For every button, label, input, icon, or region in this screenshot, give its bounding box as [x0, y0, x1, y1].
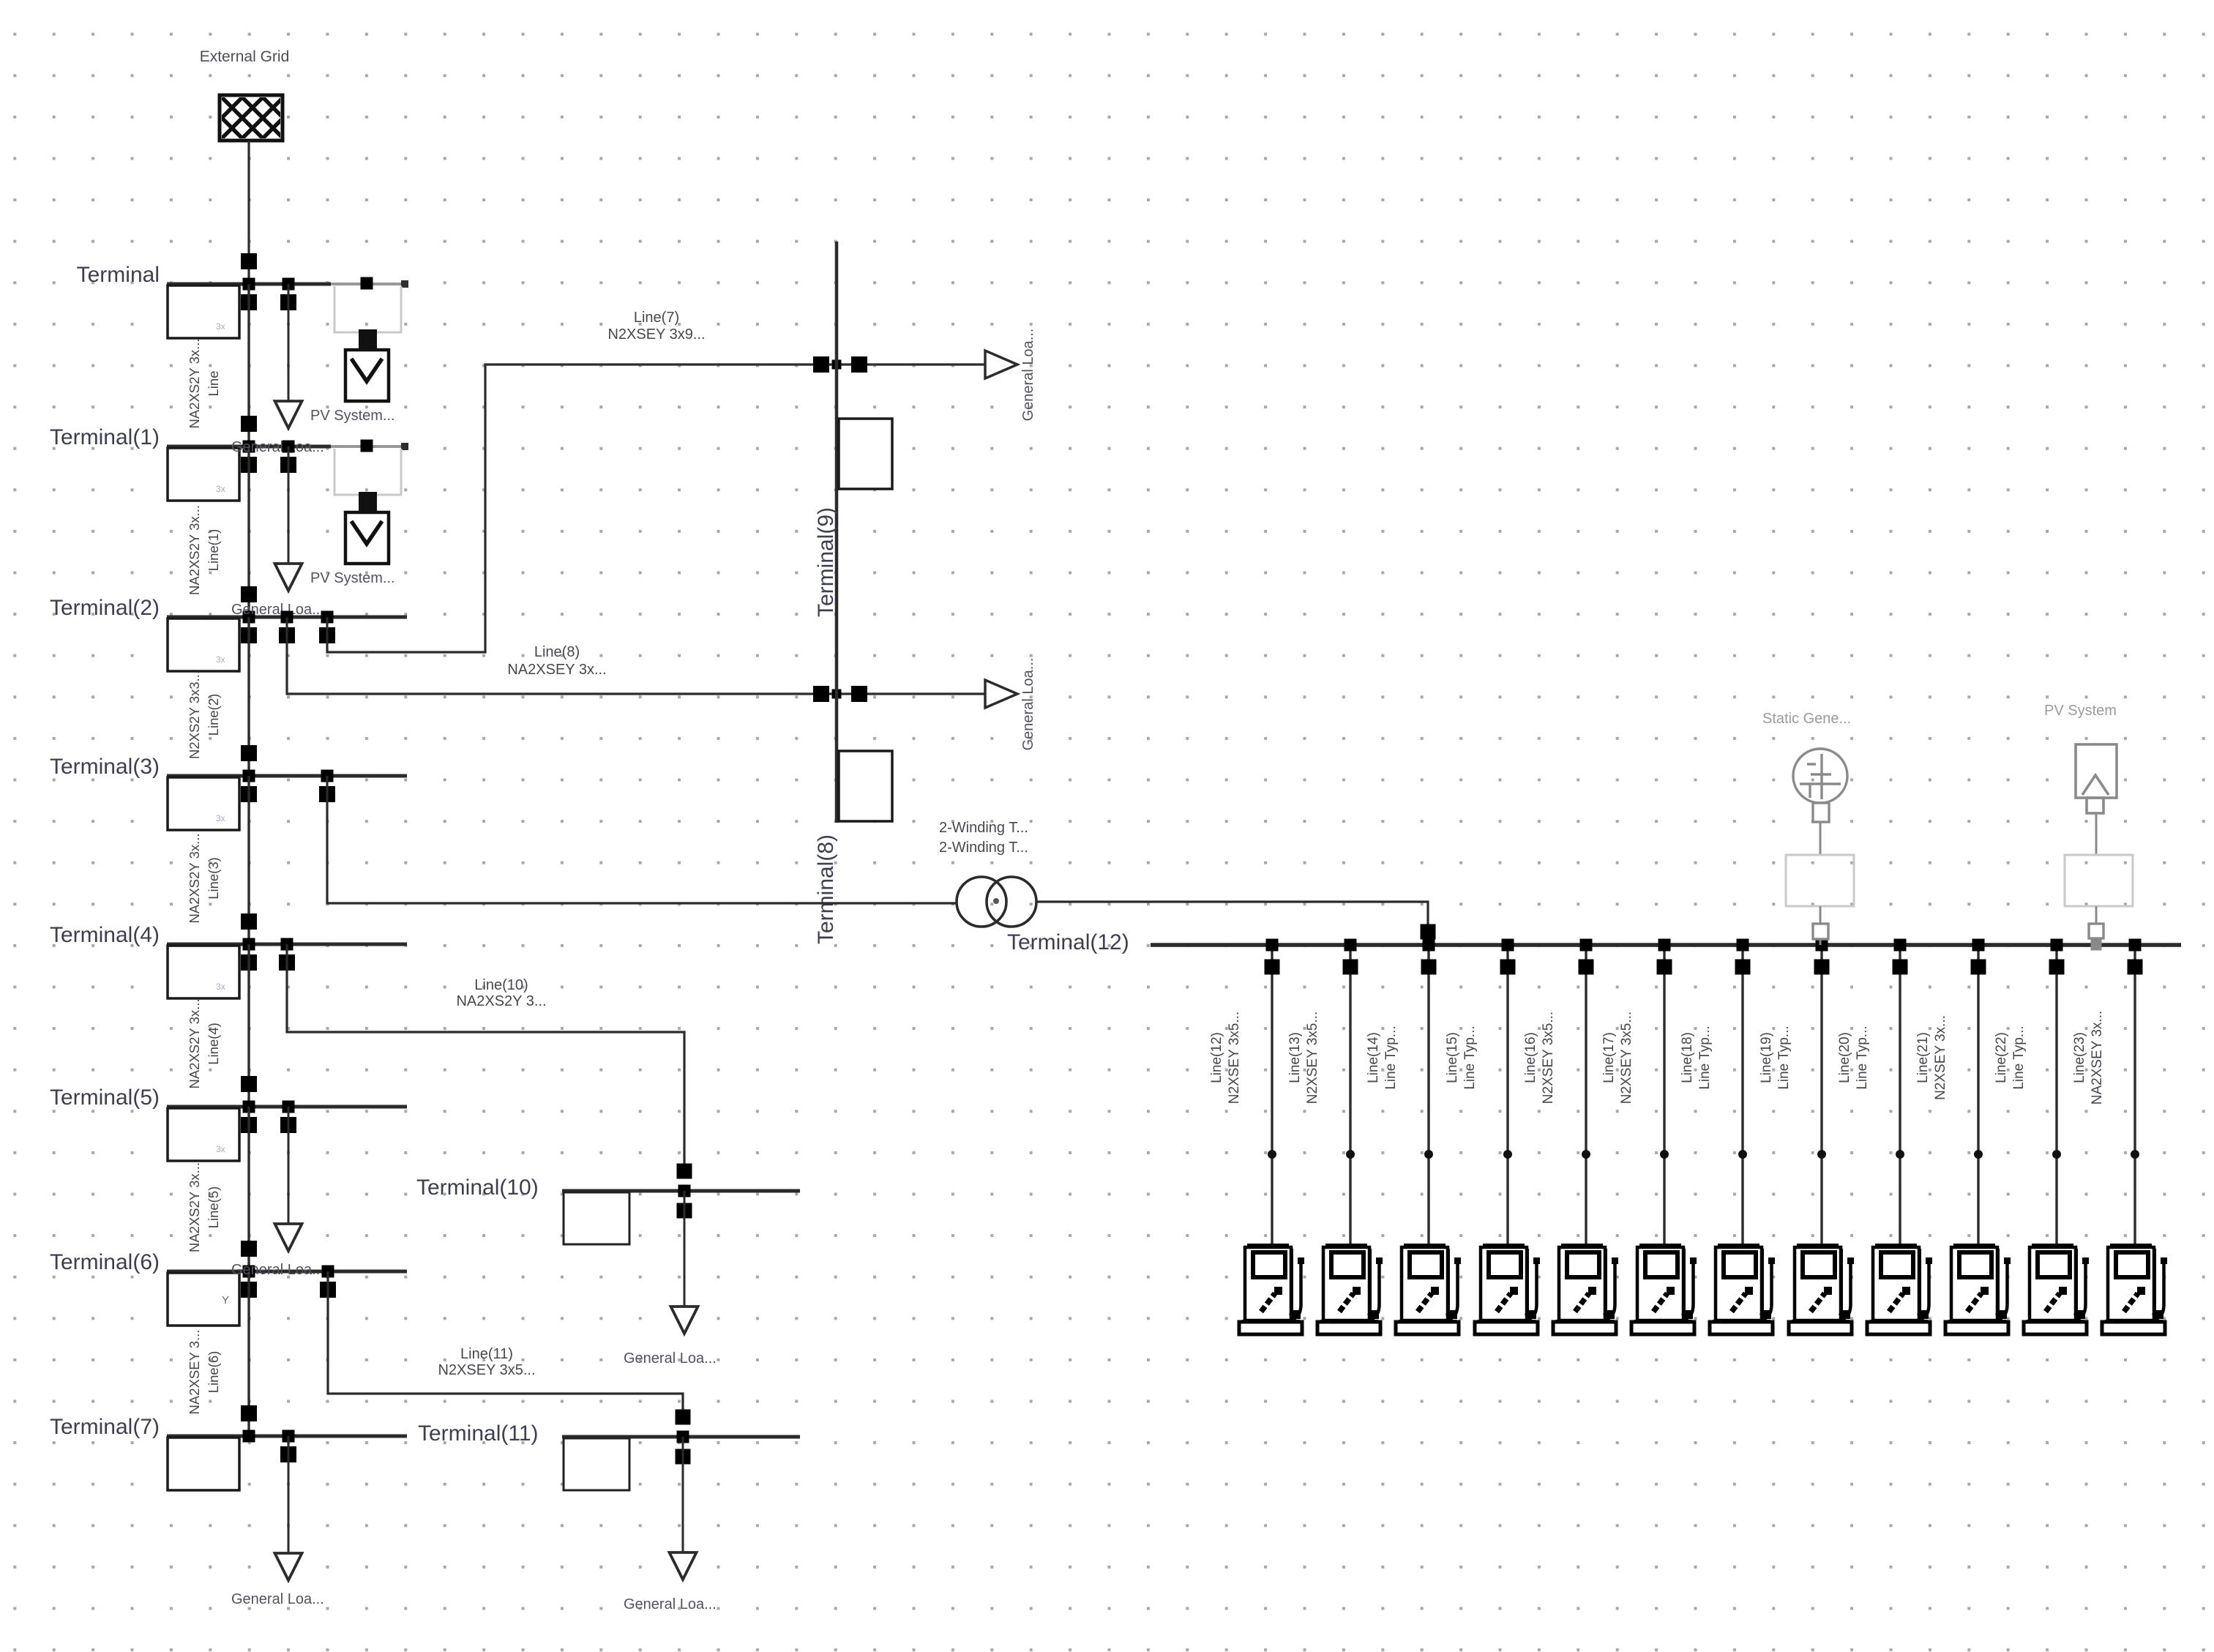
wire Line(14) feeder	[1427, 945, 1429, 1245]
PV cubicle bracket at Terminal	[334, 286, 401, 332]
svg-text:External Grid: External Grid	[200, 48, 290, 65]
switch incoming at Terminal(3)	[241, 745, 257, 761]
svg-text:NA2XS2Y 3...: NA2XS2Y 3...	[456, 993, 546, 1009]
svg-text:Line(10): Line(10)	[474, 977, 528, 993]
wire Line(19) feeder	[1820, 945, 1822, 1245]
junction Line(20) at Terminal(12)	[1894, 939, 1907, 952]
junction Line(17) at Terminal(12)	[1658, 939, 1671, 952]
junction main line at Terminal(5)	[243, 1101, 255, 1113]
switch Line(7) at Terminal(9)	[813, 356, 829, 373]
result box Terminal(8)	[839, 751, 892, 821]
switch Line(11) at Terminal(11)	[676, 1410, 691, 1425]
switch outgoing at Terminal(4)	[241, 954, 257, 971]
switch load at Terminal(9)	[851, 356, 867, 373]
svg-text:General Loa...: General Loa...	[231, 1262, 324, 1278]
result box Terminal(6)	[168, 1273, 239, 1326]
svg-text:N2XSEY 3x9...: N2XSEY 3x9...	[607, 326, 705, 343]
wire Line(10)	[287, 944, 684, 1171]
general load arrow at Terminal(9)	[985, 351, 1017, 378]
wire Line(15) feeder	[1506, 945, 1508, 1245]
wire Line(4) Terminal(4) to Terminal(5)	[247, 944, 250, 1107]
junction dot Line(23)	[2131, 1150, 2139, 1159]
switch Line(20)	[1893, 960, 1908, 975]
EV charging station 12	[2102, 1244, 2167, 1334]
wire Line(11)	[328, 1271, 683, 1417]
svg-text:Line Typ...: Line Typ...	[1462, 1025, 1478, 1089]
svg-text:Terminal(11): Terminal(11)	[418, 1421, 539, 1446]
svg-text:Line(16): Line(16)	[1523, 1032, 1538, 1083]
wire Line(23) feeder	[2133, 945, 2136, 1245]
switch Line(18)	[1735, 960, 1751, 975]
svg-text:Line(13): Line(13)	[1287, 1032, 1303, 1083]
junction load at Terminal(1)	[283, 441, 295, 453]
switch load at Terminal(7)	[280, 1446, 296, 1462]
svg-text:Line Typ...: Line Typ...	[2011, 1025, 2027, 1089]
switch load at Terminal	[280, 294, 296, 310]
junction dot Line(22)	[2052, 1150, 2061, 1159]
junction dot Line(12)	[1268, 1150, 1276, 1159]
switch Line(10) at Terminal(10)	[677, 1164, 692, 1179]
svg-text:3x: 3x	[216, 813, 225, 823]
switch PV-branch on Terminal(1)	[361, 440, 373, 452]
junction main line at Terminal(4)	[243, 938, 255, 951]
static generator cubicle bracket	[1786, 855, 1854, 906]
result box Terminal(7)	[168, 1438, 239, 1490]
PV cubicle bracket at Terminal(1)	[334, 449, 401, 495]
switch Line(10) at Terminal(4)	[279, 954, 295, 971]
busbar Terminal(12)	[1151, 943, 2181, 947]
wire to general load at Terminal(7)	[288, 1436, 290, 1555]
junction Line(8) at Terminal(2)	[281, 611, 293, 624]
wire Line(6) Terminal(6) to Terminal(7)	[247, 1271, 250, 1436]
switch Line(11) at Terminal(6)	[320, 1282, 336, 1298]
wire Line(12) feeder	[1271, 945, 1273, 1245]
svg-text:Line(3): Line(3)	[206, 857, 221, 900]
breaker PV right (open)	[2089, 924, 2103, 938]
switch load at Terminal(8)	[851, 686, 867, 702]
junction Line(22) at Terminal(12)	[2051, 939, 2063, 952]
switch load at Terminal(10)	[677, 1203, 692, 1219]
svg-text:N2XSEY 3x5...: N2XSEY 3x5...	[1227, 1012, 1242, 1104]
svg-text:3x: 3x	[216, 982, 225, 992]
busbar Terminal(5)	[167, 1105, 407, 1109]
EV charging station 2	[1317, 1244, 1383, 1334]
junction Line(21) at Terminal(12)	[1972, 939, 1985, 952]
switch incoming at Terminal(7)	[241, 1405, 257, 1421]
EV charging station 10	[1945, 1244, 2011, 1334]
junction dot Line(19)	[1817, 1150, 1826, 1159]
svg-text:General Loa...: General Loa...	[231, 602, 324, 618]
wire static generator	[1820, 822, 1822, 855]
junction Line(9) at Terminal(3)	[321, 770, 334, 782]
switch incoming at Terminal	[241, 253, 257, 269]
result box Terminal	[168, 285, 239, 338]
svg-text:3x: 3x	[216, 321, 225, 332]
switch PV-branch on Terminal	[361, 277, 373, 290]
wire to general load at Terminal(1)	[288, 446, 290, 566]
switch outgoing at Terminal(2)	[241, 627, 257, 643]
wire to general load at Terminal(11)	[682, 1437, 684, 1555]
svg-text:N2XSEY 3x5...: N2XSEY 3x5...	[1305, 1012, 1320, 1104]
svg-text:Line(11): Line(11)	[460, 1346, 513, 1362]
busbar Terminal(7)	[167, 1435, 407, 1438]
svg-text:2-Winding T...: 2-Winding T...	[939, 820, 1028, 836]
svg-text:Line(22): Line(22)	[1994, 1032, 2009, 1083]
switch Line(21)	[1971, 960, 1986, 975]
wire external grid to Terminal	[247, 141, 250, 284]
switch outgoing at Terminal(5)	[241, 1117, 257, 1133]
svg-text:Line(7): Line(7)	[634, 310, 679, 326]
junction PV right at Terminal(12)	[2091, 940, 2102, 951]
EV charging station 9	[1867, 1244, 1932, 1334]
svg-text:Terminal(1): Terminal(1)	[50, 425, 160, 449]
junction dot Line(18)	[1738, 1150, 1747, 1159]
wire Line(8)	[287, 617, 834, 694]
external grid symbol	[179, 95, 347, 141]
svg-text:Line(8): Line(8)	[534, 644, 580, 660]
svg-text:Line Typ...: Line Typ...	[1776, 1025, 1792, 1089]
junction at Terminal(8)	[832, 689, 842, 699]
svg-text:N2XSEY 3x5...: N2XSEY 3x5...	[438, 1362, 535, 1378]
PV System icon at Terminal(1)	[359, 492, 377, 513]
wire Line(9) to transformer	[327, 776, 957, 903]
wire Line(18) feeder	[1741, 945, 1743, 1245]
EV charging station 8	[1789, 1244, 1854, 1334]
wire Line(2) Terminal(2) to Terminal(3)	[247, 617, 250, 776]
svg-text:Line Typ...: Line Typ...	[1855, 1025, 1870, 1089]
svg-text:3x: 3x	[216, 484, 225, 494]
EV charging station 6	[1631, 1244, 1697, 1334]
junction main line at Terminal(6)	[243, 1266, 255, 1278]
switch Line(12)	[1265, 960, 1280, 975]
svg-text:NA2XS2Y 3x...: NA2XS2Y 3x...	[187, 1162, 202, 1252]
svg-text:PV System...: PV System...	[310, 570, 395, 586]
junction Line(14) at Terminal(12)	[1423, 939, 1435, 952]
svg-text:NA2XS2Y 3x...: NA2XS2Y 3x...	[187, 833, 202, 923]
svg-text:Terminal: Terminal	[77, 263, 160, 287]
switch Line(7) at Terminal(2)	[319, 627, 335, 643]
wire Line(20) feeder	[1899, 945, 1901, 1245]
svg-text:Line(12): Line(12)	[1209, 1032, 1224, 1083]
svg-text:N2XSEY 3x5...: N2XSEY 3x5...	[1541, 1012, 1556, 1104]
svg-text:Line(4): Line(4)	[206, 1023, 221, 1065]
wire Line(21) feeder	[1977, 945, 1979, 1245]
svg-text:Terminal(4): Terminal(4)	[50, 923, 160, 947]
switch Line(23)	[2128, 960, 2143, 975]
svg-text:Terminal(8): Terminal(8)	[814, 834, 838, 944]
wire PV right lower	[2095, 906, 2098, 924]
EV charging station 11	[2024, 1244, 2089, 1334]
EV charging station 1	[1239, 1244, 1304, 1334]
EV charging station 5	[1553, 1244, 1618, 1334]
junction Line(10) at Terminal(4)	[281, 938, 293, 951]
EV charging station 7	[1710, 1244, 1775, 1334]
svg-text:NA2XSEY 3x...: NA2XSEY 3x...	[507, 662, 606, 678]
svg-text:PV System: PV System	[2044, 703, 2117, 719]
svg-text:NA2XSEY 3x...: NA2XSEY 3x...	[2090, 1011, 2105, 1105]
svg-text:General Loa...: General Loa...	[624, 1596, 717, 1612]
junction load at Terminal(7)	[283, 1430, 295, 1443]
svg-text:NA2XSEY 3...: NA2XSEY 3...	[187, 1330, 202, 1415]
switch Line(8) at Terminal(2)	[279, 627, 295, 643]
svg-text:Terminal(12): Terminal(12)	[1007, 930, 1129, 954]
svg-text:2-Winding T...: 2-Winding T...	[939, 840, 1028, 856]
busbar Terminal(6)	[167, 1270, 407, 1274]
wire Line Terminal to Terminal(1)	[247, 284, 250, 446]
junction dot Line(14)	[1424, 1150, 1433, 1159]
switch Line(19)	[1814, 960, 1830, 975]
general load arrow at Terminal(11)	[670, 1552, 697, 1580]
result box Terminal(10)	[564, 1192, 629, 1244]
switch load at Terminal(5)	[280, 1117, 296, 1133]
switch Line(17)	[1657, 960, 1672, 975]
switch transformer at Terminal(12)	[1421, 924, 1436, 940]
wire to general load at Terminal(5)	[288, 1107, 290, 1226]
general load arrow at Terminal(7)	[275, 1553, 302, 1580]
switch Line(15)	[1500, 960, 1516, 975]
busbar Terminal(3)	[167, 774, 407, 778]
wire Line(5) Terminal(5) to Terminal(6)	[247, 1107, 250, 1271]
wire to general load at Terminal	[288, 284, 290, 403]
svg-text:N2XSEY 3x5...: N2XSEY 3x5...	[1619, 1012, 1634, 1104]
junction main line at Terminal(3)	[243, 770, 255, 782]
switch Line(16)	[1579, 960, 1594, 975]
junction dot Line(21)	[1974, 1150, 1983, 1159]
end tick Terminal	[401, 280, 408, 288]
wire static generator lower	[1820, 906, 1822, 924]
wire PV right	[2095, 813, 2098, 855]
junction Line(18) at Terminal(12)	[1737, 939, 1749, 952]
switch incoming at Terminal(4)	[241, 913, 257, 930]
general load arrow at Terminal	[275, 401, 302, 428]
junction Line(7) at Terminal(2)	[321, 611, 334, 624]
switch incoming at Terminal(2)	[241, 586, 257, 602]
svg-text:Static Gene...: Static Gene...	[1762, 711, 1851, 727]
busbar Terminal	[167, 283, 331, 286]
wire Line(16) feeder	[1585, 945, 1587, 1245]
switch load at Terminal(11)	[676, 1449, 691, 1465]
wire Line(1) Terminal(1) to Terminal(2)	[247, 446, 250, 617]
svg-text:Terminal(10): Terminal(10)	[416, 1176, 539, 1200]
junction Line(19) at Terminal(12)	[1816, 939, 1828, 952]
junction load at Terminal	[283, 278, 295, 291]
result box Terminal(5)	[168, 1108, 239, 1161]
svg-text:N2XSEY 3x...: N2XSEY 3x...	[1933, 1015, 1948, 1100]
transformer 2-Winding T	[957, 877, 1006, 927]
wire Line(7)	[327, 365, 834, 652]
wire Line(22) feeder	[2055, 945, 2057, 1245]
EV charging station 3	[1396, 1244, 1461, 1334]
wire Line(17) feeder	[1663, 945, 1665, 1245]
svg-text:Line Typ...: Line Typ...	[1383, 1025, 1399, 1089]
junction dot Line(15)	[1503, 1150, 1512, 1159]
svg-text:3x: 3x	[216, 1144, 225, 1154]
end tick Terminal(1)	[401, 443, 408, 450]
switch Line(13)	[1343, 960, 1358, 975]
result box Terminal(1)	[168, 448, 239, 501]
svg-text:General Loa...: General Loa...	[231, 1591, 324, 1607]
busbar Terminal(9)/Terminal(8)	[835, 242, 839, 823]
switch Line(9) at Terminal(3)	[319, 786, 335, 802]
result box Terminal(4)	[168, 946, 239, 998]
svg-text:Line(15): Line(15)	[1445, 1032, 1460, 1083]
switch Line(22)	[2049, 960, 2065, 975]
svg-text:Line(21): Line(21)	[1915, 1032, 1931, 1083]
general load arrow at Terminal(5)	[275, 1224, 302, 1251]
switch outgoing at Terminal(1)	[241, 457, 257, 473]
wire Line(3) Terminal(3) to Terminal(4)	[247, 776, 250, 944]
junction dot Line(17)	[1660, 1150, 1669, 1159]
svg-text:Line(19): Line(19)	[1759, 1032, 1774, 1083]
svg-text:Terminal(9): Terminal(9)	[814, 507, 838, 617]
junction at Terminal(11)	[677, 1431, 689, 1443]
result box Terminal(2)	[168, 618, 239, 671]
switch outgoing at Terminal	[241, 294, 257, 310]
wire transformer to Terminal(12)	[1036, 902, 1428, 945]
svg-text:Y: Y	[222, 1294, 229, 1307]
junction Line(13) at Terminal(12)	[1345, 939, 1357, 952]
busbar Terminal(2)	[167, 616, 407, 619]
svg-text:Terminal(3): Terminal(3)	[50, 755, 160, 779]
svg-text:Line Typ...: Line Typ...	[1697, 1025, 1713, 1089]
svg-text:Terminal(7): Terminal(7)	[50, 1415, 160, 1439]
svg-text:Line(6): Line(6)	[206, 1351, 221, 1394]
svg-text:Line(18): Line(18)	[1680, 1032, 1695, 1083]
junction Line(23) at Terminal(12)	[2129, 939, 2142, 952]
svg-text:Line: Line	[206, 371, 221, 397]
wire to general load at Terminal(10)	[684, 1191, 686, 1309]
switch incoming at Terminal(1)	[241, 416, 257, 432]
svg-text:PV System...: PV System...	[310, 408, 395, 424]
switch outgoing at Terminal(6)	[241, 1282, 257, 1298]
svg-text:Line(2): Line(2)	[206, 694, 221, 736]
svg-text:General Loa...: General Loa...	[624, 1350, 717, 1367]
switch outgoing at Terminal(3)	[241, 786, 257, 802]
busbar Terminal(10)	[562, 1189, 800, 1193]
junction Line(12) at Terminal(12)	[1266, 939, 1279, 952]
svg-text:NA2XS2Y 3x...: NA2XS2Y 3x...	[187, 338, 202, 428]
junction Line(11) at Terminal(6)	[322, 1266, 334, 1278]
svg-text:Line(5): Line(5)	[206, 1186, 221, 1229]
svg-text:Terminal(6): Terminal(6)	[50, 1250, 160, 1274]
wire Line(13) feeder	[1349, 945, 1351, 1245]
svg-text:Terminal(2): Terminal(2)	[50, 596, 160, 620]
junction main line at Terminal	[243, 278, 255, 291]
wire Terminal(9) to general load	[839, 363, 985, 365]
PV System icon at Terminal	[359, 329, 377, 351]
switch load at Terminal(1)	[280, 457, 296, 473]
switch ext-grid/Terminal	[242, 254, 257, 269]
result box Terminal(3)	[168, 777, 239, 830]
svg-text:Line(14): Line(14)	[1366, 1032, 1381, 1083]
static generator symbol	[1793, 749, 1847, 822]
svg-text:Line(17): Line(17)	[1601, 1032, 1617, 1083]
junction dot Line(16)	[1582, 1150, 1590, 1159]
general load arrow at Terminal(10)	[671, 1307, 698, 1334]
PV System symbol right	[2076, 744, 2117, 813]
junction main line at Terminal(1)	[243, 441, 255, 453]
wire Terminal(8) to general load	[839, 692, 985, 695]
junction main line at Terminal(7)	[243, 1430, 255, 1443]
busbar Terminal(1)	[167, 445, 331, 449]
breaker static generator (open)	[1813, 924, 1828, 939]
junction main line at Terminal(2)	[243, 611, 255, 624]
result box Terminal(11)	[564, 1438, 629, 1490]
busbar Terminal(11)	[562, 1435, 800, 1439]
svg-text:NA2XS2Y 3x...: NA2XS2Y 3x...	[187, 505, 202, 595]
svg-text:3x: 3x	[216, 654, 225, 665]
general load arrow at Terminal(8)	[985, 680, 1017, 708]
switch incoming at Terminal(5)	[241, 1076, 257, 1092]
general load arrow at Terminal(1)	[275, 564, 302, 591]
svg-text:Terminal(5): Terminal(5)	[50, 1085, 160, 1110]
result box Terminal(9)	[839, 419, 892, 489]
switch Line(14)	[1421, 960, 1437, 975]
svg-text:Line(23): Line(23)	[2072, 1032, 2087, 1083]
junction at Terminal(9)	[832, 360, 842, 370]
junction Line(15) at Terminal(12)	[1502, 939, 1514, 952]
svg-text:General Loa...: General Loa...	[1020, 658, 1036, 751]
junction dot Line(20)	[1896, 1150, 1904, 1159]
svg-text:General Loa...: General Loa...	[231, 439, 324, 455]
svg-text:NA2XS2Y 3x...: NA2XS2Y 3x...	[187, 998, 202, 1088]
junction at Terminal(10)	[678, 1185, 691, 1197]
junction dot Line(13)	[1346, 1150, 1355, 1159]
svg-text:Line(1): Line(1)	[206, 529, 221, 572]
switch Line(8) at Terminal(8)	[813, 686, 829, 702]
busbar Terminal(4)	[167, 943, 407, 946]
PV cubicle bracket right	[2065, 855, 2133, 906]
EV charging station 4	[1475, 1244, 1540, 1334]
junction Line(16) at Terminal(12)	[1580, 939, 1593, 952]
switch incoming at Terminal(6)	[241, 1241, 257, 1257]
svg-text:N2XS2Y 3x3...: N2XS2Y 3x3...	[187, 670, 202, 759]
junction load at Terminal(5)	[283, 1101, 295, 1113]
svg-text:General Loa...: General Loa...	[1020, 329, 1036, 422]
svg-text:Line(20): Line(20)	[1837, 1032, 1852, 1083]
